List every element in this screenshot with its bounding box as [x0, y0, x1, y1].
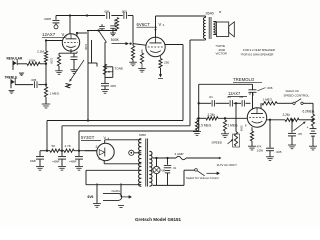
svg-text:.01: .01 — [173, 166, 177, 170]
wire 5Y3 plate top to transformer — [104, 140, 106, 144]
filament loop of 6V6 heater — [103, 193, 122, 200]
svg-text:.006: .006 — [104, 10, 110, 14]
wire 5Y3 plate bottom to transformer — [103, 161, 105, 164]
svg-text:TONE: TONE — [115, 66, 124, 70]
svg-text:1/2W: 1/2W — [257, 148, 264, 152]
ground below cathode resistor — [55, 70, 63, 72]
transformer 5056 primary winding (right) — [149, 151, 152, 186]
tube 5Y3GT V4 rectifier — [97, 143, 114, 160]
wire grid node to 6V6 — [133, 44, 146, 46]
ground below 1 MEG — [42, 103, 50, 105]
svg-text:500K: 500K — [239, 126, 242, 132]
wire B+ feed to tremolo plates — [198, 84, 200, 103]
svg-text:.05: .05 — [239, 95, 244, 99]
capacitor .005 tone to ground — [101, 82, 109, 84]
resistor 270K plate load — [115, 18, 118, 31]
capacitor .05 phase shift 3 — [241, 100, 243, 106]
resistor 100K mixing — [27, 62, 40, 65]
transformer 5056 core — [145, 139, 147, 187]
capacitor 40MF filter 2 — [61, 151, 63, 156]
transformer 5056 secondary winding (left) — [139, 139, 142, 187]
svg-text:270K: 270K — [113, 20, 117, 27]
wire TREBLE jack to cap — [15, 84, 33, 86]
ground filter cap 2 — [58, 165, 66, 167]
resistor 47K cathode of V3 — [251, 127, 253, 131]
svg-text:2.2M: 2.2M — [283, 113, 290, 117]
speaker — [217, 22, 229, 37]
wire phase cap junction down to speed pot — [235, 103, 237, 131]
svg-text:5056: 5056 — [139, 133, 146, 137]
wire plate node y=30.5 — [87, 30, 117, 32]
resistor at x=142 with ground — [141, 50, 143, 54]
pilot lamp — [156, 158, 158, 166]
capacitor .0005 (grid cap with open terminal) — [55, 16, 57, 20]
wire V3 mid output to .005 cap — [269, 119, 271, 121]
svg-text:TREMOLO: TREMOLO — [233, 77, 255, 82]
resistor 1.5 MEG to ground — [196, 118, 198, 120]
wire oscillator mid rail y=118.3 — [197, 117, 206, 119]
wire V1 grid column x=46 — [45, 41, 47, 52]
svg-text:+40MF: +40MF — [69, 161, 77, 164]
resistor 1500 cathode bias — [58, 53, 60, 55]
svg-text:SPEED: SPEED — [212, 141, 223, 145]
resistor 2.2M grid leak — [44, 51, 47, 62]
chassis ground below V2 cathode — [159, 74, 162, 77]
node junction dot on top rail at x=70 — [69, 14, 71, 16]
svg-text:1 MEG.: 1 MEG. — [50, 92, 61, 96]
resistor 4.7K filter — [64, 149, 74, 152]
svg-text:100K: 100K — [29, 59, 37, 63]
wire corner at cathode/pot junction — [88, 62, 97, 64]
svg-text:1500: 1500 — [50, 58, 54, 64]
capacitor .005 to ground — [266, 147, 274, 149]
resistor 2.2M oscillator — [206, 117, 218, 120]
wire top rail to output transformer — [156, 15, 206, 17]
capacitor 40MF filter 1 — [39, 151, 41, 156]
wire tremolo oscillator top y=103.3 — [199, 102, 211, 104]
capacitor .005 treble input — [33, 81, 35, 88]
svg-text:+: + — [307, 126, 309, 130]
wire B+ rail 3 (y=131) — [79, 130, 199, 132]
ground filter cap 3 — [75, 165, 83, 167]
svg-text:.01: .01 — [227, 95, 232, 99]
svg-text:OutPut: OutPut — [112, 189, 121, 193]
svg-text:REGULAR: REGULAR — [7, 57, 23, 61]
resistor 1 MEG treble leak — [44, 87, 47, 97]
input jack REGULAR — [12, 61, 14, 71]
wire V3 output y=119.8 — [267, 119, 285, 121]
svg-text:SPEED CONTROL: SPEED CONTROL — [284, 93, 310, 97]
wire tone column x=105 — [104, 42, 106, 83]
svg-text:.005: .005 — [276, 150, 282, 154]
transformer core — [208, 17, 210, 39]
node junction dot on top rail at x=87 — [86, 14, 88, 16]
capacitor bypass at x=113 with small ground — [110, 25, 116, 27]
wire B+ rail 2 (y=125.8) — [62, 125, 190, 127]
wire 100K to grid node — [40, 63, 46, 65]
capacitor .005 coupling on top rail — [123, 12, 125, 19]
svg-text:Switch On: Switch On — [286, 89, 300, 93]
switch on speed control — [293, 102, 295, 104]
resistor 1 MEG oscillator to ground — [224, 117, 226, 119]
input jack TREBLE — [10, 79, 12, 88]
wire pot element x=91.5 — [91, 40, 93, 63]
svg-text:1.5 MEG.: 1.5 MEG. — [199, 123, 213, 127]
svg-text:8: 8 — [245, 124, 247, 128]
ground below 47K — [248, 145, 256, 147]
capacitor .006 plate of V3 — [249, 89, 257, 91]
annotation arrow to pin note — [70, 60, 85, 82]
svg-text:117V AC 60CY: 117V AC 60CY — [217, 163, 238, 167]
ground below 1.5 MEG — [193, 131, 201, 133]
svg-text:*: * — [219, 11, 222, 17]
wire rail2 drop to filter — [61, 126, 63, 151]
svg-text:V: V — [249, 91, 252, 96]
wire filter B+ bus y=150.7 — [40, 150, 50, 152]
svg-text:.0005: .0005 — [44, 17, 52, 21]
ground below cathode bypass cap — [70, 69, 78, 71]
svg-text:100K: 100K — [84, 44, 88, 50]
wire V1 plate lead from top rail — [69, 16, 71, 35]
ground at x=142 — [138, 68, 146, 70]
ground right column — [309, 145, 317, 147]
svg-text:.05: .05 — [298, 132, 303, 136]
resistor 250 cathode of V2 — [160, 56, 162, 59]
wire V2 screen to B+ vertical — [165, 44, 183, 46]
leader line to .006 label — [258, 88, 266, 91]
tube 6V6CT V2 output — [146, 37, 165, 56]
resistor 5K filter — [50, 149, 60, 152]
svg-text:.006: .006 — [267, 86, 273, 90]
wire B+ vertical x=183 (screen feed) — [182, 45, 184, 121]
svg-text:6V6: 6V6 — [88, 195, 94, 199]
svg-text:2.2M: 2.2M — [208, 113, 215, 117]
svg-text:.01: .01 — [209, 95, 214, 99]
svg-text:40MF: 40MF — [30, 160, 37, 163]
wire V1 second plate lead — [77, 32, 87, 34]
svg-text:2: 2 — [163, 23, 165, 27]
wire top B+ rail of preamp (y=15.5) — [56, 15, 105, 17]
svg-text:1 MEG.: 1 MEG. — [228, 123, 239, 127]
arrow to other heaters — [121, 196, 132, 198]
ground below .05 cap — [288, 144, 296, 146]
ground heater bus — [93, 203, 101, 205]
ground filter cap 1 — [36, 165, 44, 167]
wiper arrow of volume pot — [112, 43, 129, 45]
capacitor .01 phase shift 1 — [211, 100, 213, 106]
wiper arrow of intensity pot — [294, 122, 306, 131]
wire long vertical x=88 to B+ rail — [87, 31, 89, 121]
wire V1 cathode leads — [70, 49, 72, 53]
wire REGULAR jack to 100K — [17, 63, 27, 65]
svg-text:VICTOR: VICTOR — [216, 52, 228, 56]
wire AC primary top with fuse — [153, 157, 176, 159]
svg-text:Gretsch Model G6151: Gretsch Model G6151 — [135, 217, 182, 222]
svg-text:250: 250 — [164, 61, 169, 65]
ground below grid resistor — [129, 61, 137, 63]
resistor intensity pot element — [285, 118, 299, 121]
wire AC primary bottom — [153, 184, 184, 186]
capacitor .006 coupling on top rail — [106, 12, 108, 19]
potentiometer 500K volume (diagonal element) — [99, 31, 107, 43]
svg-text:1 MEG.: 1 MEG. — [263, 97, 274, 101]
wire vertical x=199 tee to rails — [198, 103, 200, 131]
svg-text:.005: .005 — [121, 10, 127, 14]
wire B+ vertical x=190 (plate feed from transformer) — [189, 40, 191, 126]
svg-text:V: V — [62, 32, 65, 37]
svg-text:6.2MEG.: 6.2MEG. — [303, 110, 316, 114]
resistor 6.2MEG — [311, 114, 314, 126]
svg-text:V: V — [159, 22, 162, 27]
svg-text:5Y3GT: 5Y3GT — [81, 135, 95, 140]
transformer secondary — [213, 21, 215, 34]
wire rail3 drop to filter — [78, 131, 80, 151]
svg-text:500K: 500K — [111, 38, 120, 42]
potentiometer SPEED — [234, 132, 237, 147]
wire V2 plate lead to output transformer rail — [155, 16, 157, 37]
wire V3 plate 2 lead up to 1 MEG wire — [260, 103, 262, 108]
wire right column x=313 — [312, 103, 314, 114]
wire V1 grid to input network — [46, 40, 62, 42]
ground below TREBLE jack — [9, 90, 15, 92]
svg-text:+40MF: +40MF — [52, 161, 60, 164]
tube 12AX7 V1 triode — [62, 34, 79, 51]
svg-text:4.7K: 4.7K — [65, 144, 72, 148]
capacitor line filter .01 — [167, 158, 169, 165]
svg-text:2640: 2640 — [206, 11, 214, 15]
tube 12AX7 V3 tremolo — [247, 108, 266, 127]
svg-text:2 AMP: 2 AMP — [175, 152, 184, 156]
capacitor small above plate node at x=102 — [99, 25, 105, 27]
transformer 2640 output primary — [205, 16, 207, 18]
node dot at (98.5,30.5) — [97, 29, 99, 31]
switch on volume control — [195, 169, 198, 172]
svg-text:2: 2 — [96, 145, 98, 149]
svg-text:.005: .005 — [31, 78, 37, 82]
ground below tone cap — [101, 89, 109, 91]
svg-text:*FOR 8.0 OHM SPEAKER: *FOR 8.0 OHM SPEAKER — [241, 53, 274, 57]
svg-text:6V6CT: 6V6CT — [137, 22, 151, 27]
wire cap to grid column — [38, 84, 46, 86]
wire B+ rail 1 (y=120.5) — [47, 120, 183, 122]
ground below 1 MEG — [221, 133, 229, 135]
svg-text:.005: .005 — [110, 84, 116, 88]
node dot grid of 6V6 — [129, 42, 131, 44]
svg-text:2.2M: 2.2M — [37, 50, 44, 54]
resistor 500K 6V6 grid leak — [132, 44, 134, 46]
wire corner from top rail down to 6V6 grid node — [132, 16, 134, 44]
svg-text:12AX7: 12AX7 — [42, 32, 56, 37]
resistor 1 MEG plate to switch — [262, 102, 277, 105]
svg-text:5K: 5K — [52, 144, 57, 148]
ground below .005 cap — [266, 156, 274, 158]
potentiometer TONE — [103, 64, 106, 75]
capacitor 40MF filter 3 — [78, 151, 80, 156]
svg-text:FOR 3.2 OHM SPEAKER: FOR 3.2 OHM SPEAKER — [243, 48, 275, 52]
wire filter bus into 5Y3 cathode — [85, 150, 97, 152]
capacitor cathode bypass 25MF — [73, 53, 75, 57]
svg-text:NE: NE — [162, 169, 166, 173]
wire heater winding taps to heater bus — [86, 169, 141, 171]
fuse 2 AMP — [176, 156, 186, 159]
capacitor .05 to ground — [291, 119, 293, 121]
heater bus stubs — [96, 183, 98, 186]
ground at REGULAR jack — [19, 72, 24, 74]
capacitor .01 phase shift 2 — [229, 100, 231, 106]
wire rail1 drop to filter — [46, 121, 48, 151]
svg-text:Switch On Volume Control: Switch On Volume Control — [186, 176, 219, 180]
center tap terminal circle — [134, 152, 141, 154]
